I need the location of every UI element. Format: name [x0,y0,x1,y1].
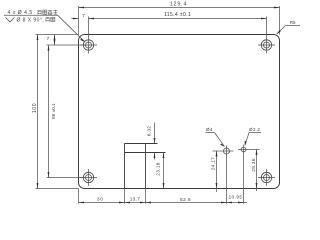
bottom chain extension lines [79,155,248,204]
dimension 52.5 [146,202,227,204]
svg-text:30: 30 [97,197,104,203]
dimension 10.95 [227,202,244,204]
svg-text:23.18: 23.18 [156,162,162,176]
dimension 13.7 [125,202,146,204]
svg-text:86 ±0.1: 86 ±0.1 [51,103,56,119]
leader D4 [206,133,225,147]
corner hole bottom-right [258,169,275,186]
svg-text:7: 7 [82,13,85,19]
dimension 86 +-0.1 left [47,45,86,178]
corner hole top-right [258,37,275,54]
svg-text:4 x Ø 4.5: 4 x Ø 4.5 [8,10,33,16]
svg-text:52.5: 52.5 [180,197,191,203]
svg-text:115.4 ±0.1: 115.4 ±0.1 [164,12,191,18]
svg-text:129.4: 129.4 [170,2,188,8]
dimension 7 left vertical [54,35,56,46]
dimension 30 [79,202,125,204]
corner hole bottom-left [80,169,97,186]
dimension 7 top-left [72,18,79,20]
leader D3.2 [245,133,261,145]
dimension 100 left [36,35,79,189]
notch rectangle feature [125,144,166,189]
svg-text:Ø3.2: Ø3.2 [249,127,260,132]
dimension 6.32 [154,123,156,160]
svg-text:25.36: 25.36 [251,158,257,172]
dimension 129.4 [79,6,280,35]
dimension 24.17 [213,151,234,192]
svg-text:7: 7 [47,36,50,42]
svg-text:100: 100 [32,103,38,113]
hole D4 [224,146,230,157]
svg-text:24.17: 24.17 [211,157,217,171]
dimension 23.18 [163,153,165,189]
countersink symbol [6,17,15,22]
radius callout R5 [277,26,300,35]
hole callout 4x D4.5 countersink [4,15,85,42]
hole D3.2 [241,145,246,155]
svg-text:13.7: 13.7 [130,197,141,203]
dimension 25.36 [238,150,260,192]
plate outline [79,35,280,189]
svg-text:10.95: 10.95 [228,195,242,201]
CJK label line1 [38,10,58,14]
dimension 115.4 +-0.1 [89,17,267,38]
svg-text:Ø4: Ø4 [206,127,213,132]
svg-text:6.32: 6.32 [147,126,153,137]
corner hole top-left [80,37,97,54]
svg-text:Ø 8 X 90°,: Ø 8 X 90°, [17,18,45,24]
CJK label line2 [46,17,55,21]
